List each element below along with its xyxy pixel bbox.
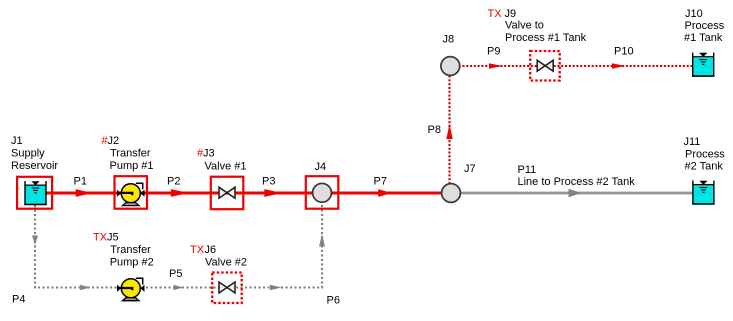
pipe P6	[270, 234, 340, 307]
pipe P8	[428, 66, 453, 184]
svg-text:P5: P5	[169, 268, 182, 280]
svg-text:Pump #1: Pump #1	[110, 160, 154, 172]
svg-text:Process: Process	[685, 20, 725, 32]
svg-text:Valve #1: Valve #1	[205, 160, 247, 172]
pipe P7	[374, 176, 392, 197]
svg-text:P7: P7	[374, 176, 387, 188]
valve J3	[197, 147, 247, 209]
svg-text:Transfer: Transfer	[110, 147, 151, 159]
svg-text:J8: J8	[443, 34, 455, 46]
svg-text:J11: J11	[684, 136, 701, 148]
svg-text:J1: J1	[11, 135, 23, 147]
pipe P4	[12, 236, 91, 306]
reservoir J11	[684, 136, 726, 205]
svg-text:Process: Process	[685, 148, 725, 160]
svg-text:P9: P9	[487, 46, 500, 58]
svg-text:TX: TX	[190, 244, 205, 256]
svg-text:P2: P2	[167, 176, 180, 188]
svg-text:P8: P8	[428, 124, 441, 136]
svg-text:J4: J4	[315, 161, 327, 173]
valve J6	[190, 244, 247, 303]
svg-text:TX: TX	[93, 232, 108, 244]
svg-text:J5: J5	[107, 232, 119, 244]
svg-text:P3: P3	[262, 176, 275, 188]
svg-text:J7: J7	[464, 163, 476, 175]
pipe P1	[74, 176, 93, 197]
bottom gray dotted pipe run J1-J5-J6-J4	[35, 203, 322, 288]
svg-text:J2: J2	[108, 135, 120, 147]
top red dotted pipe run J8 to J10	[451, 65, 692, 67]
svg-text:P10: P10	[614, 46, 634, 58]
pump J5	[93, 232, 154, 301]
pipe P5	[169, 268, 184, 290]
svg-text:J6: J6	[205, 244, 217, 256]
branch J4	[306, 161, 339, 209]
svg-text:J10: J10	[685, 8, 703, 20]
pipe P11	[452, 164, 693, 197]
svg-text:Supply: Supply	[11, 147, 45, 159]
svg-text:Transfer: Transfer	[110, 244, 151, 256]
svg-text:P4: P4	[12, 294, 25, 306]
svg-text:J9: J9	[505, 8, 517, 20]
svg-text:TX: TX	[488, 8, 503, 20]
svg-text:P6: P6	[327, 295, 340, 307]
svg-text:Valve to: Valve to	[505, 20, 544, 32]
svg-text:Pump #2: Pump #2	[110, 256, 154, 268]
pump J2	[102, 135, 154, 209]
branch J7	[442, 163, 476, 202]
svg-text:P1: P1	[74, 176, 87, 188]
reservoir J1	[11, 135, 58, 209]
reservoir J10	[684, 8, 725, 77]
pipe P9	[487, 46, 502, 69]
valve J9	[488, 8, 587, 81]
svg-text:Reservoir: Reservoir	[11, 160, 58, 172]
main red pipe run J1 to J7	[44, 192, 442, 195]
svg-text:Valve #2: Valve #2	[205, 257, 247, 269]
pipe P3	[262, 176, 283, 197]
svg-text:#2 Tank: #2 Tank	[685, 161, 724, 173]
svg-text:Process #1 Tank: Process #1 Tank	[505, 32, 587, 44]
svg-text:P11: P11	[518, 164, 537, 176]
svg-text:J3: J3	[203, 147, 215, 159]
pipe P2	[167, 176, 189, 197]
svg-text:#1 Tank: #1 Tank	[684, 32, 723, 44]
svg-text:Line to Process #2 Tank: Line to Process #2 Tank	[518, 176, 636, 188]
branch J8	[441, 34, 460, 76]
pipe P10	[612, 46, 634, 69]
